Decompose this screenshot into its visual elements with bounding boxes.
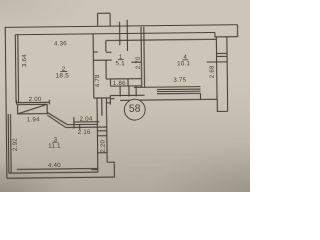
right wall window tick A <box>217 52 227 54</box>
window end jamb <box>199 93 201 99</box>
svg-text:3.64: 3.64 <box>21 54 28 67</box>
stair tick <box>106 102 110 104</box>
left wall inner line lower <box>7 114 10 173</box>
corridor jog <box>109 96 111 105</box>
svg-text:1.94: 1.94 <box>27 116 40 123</box>
stair wall line B <box>101 98 103 116</box>
reference circle 58 <box>124 99 145 120</box>
svg-text:4.78: 4.78 <box>94 74 101 87</box>
svg-text:2.92: 2.92 <box>12 138 19 151</box>
svg-text:3.75: 3.75 <box>173 77 186 84</box>
left wall inner lower B <box>9 114 12 173</box>
room 1 left wall lower <box>105 60 107 79</box>
svg-text:2.20: 2.20 <box>99 139 106 152</box>
corridor top line left <box>94 97 110 99</box>
dim 2.04 line <box>74 121 99 123</box>
room 1 bottom wall lower line <box>110 85 141 87</box>
rooms 1-4 block top wall <box>106 39 217 40</box>
stair wall tick 2 <box>97 135 106 137</box>
stair wall tick 3 <box>98 152 107 154</box>
closet dim line <box>17 101 50 103</box>
left wall inner line upper B <box>17 35 20 103</box>
svg-text:10.1: 10.1 <box>177 60 190 67</box>
dim 4.40 line <box>17 168 98 171</box>
right wall long tick <box>207 61 227 63</box>
right wall outer line <box>226 37 229 112</box>
closet diagonal <box>18 104 48 114</box>
corridor bottom line <box>120 99 217 100</box>
stub below room 1 C <box>135 86 137 96</box>
svg-text:2.70: 2.70 <box>135 56 142 69</box>
stair wall line A <box>96 98 99 172</box>
room 1 door jamb tick A <box>106 51 112 53</box>
corridor top line right <box>110 94 144 96</box>
top wall outer line <box>5 25 238 28</box>
room 2 underline <box>60 71 67 73</box>
door tick on room 2 wall <box>93 51 97 53</box>
svg-text:1.86: 1.86 <box>113 80 126 87</box>
stair landing line upper <box>67 123 97 125</box>
room 3 underline <box>52 141 58 143</box>
wall between rooms 1 and 4 line B <box>143 27 146 87</box>
wall between rooms 1 and 4 line A <box>140 27 143 87</box>
closet dim end tick left <box>16 100 18 104</box>
stair wall line C <box>105 98 108 162</box>
dim 2.04 tick <box>73 117 75 128</box>
stair diagonal B <box>47 115 66 128</box>
svg-text:18.5: 18.5 <box>55 72 69 79</box>
room 1 left wall upper <box>105 41 107 52</box>
svg-text:saewnta menwa trw satew merw: saewnta menwa trw satew merw <box>129 152 204 158</box>
svg-text:wram tnew asw: wram tnew asw <box>129 166 165 172</box>
svg-text:w snerta 2019 ew wertusp: w snerta 2019 ew wertusp <box>129 159 189 165</box>
stub below room 1 B <box>128 86 130 96</box>
window line A <box>157 88 200 90</box>
bottom wall outer line <box>7 177 107 178</box>
dim box left side <box>109 79 111 86</box>
svg-text:5.1: 5.1 <box>116 60 126 67</box>
svg-text:2.16: 2.16 <box>78 129 91 136</box>
top wall inner line <box>15 32 215 34</box>
chimney stub top <box>98 12 110 14</box>
dim box right side <box>127 79 129 86</box>
svg-text:2.00: 2.00 <box>29 96 42 103</box>
room 1 door jamb tick B <box>93 59 111 61</box>
room 1 bottom wall upper line <box>106 78 141 80</box>
room 4 underline <box>182 59 188 61</box>
svg-text:11.1: 11.1 <box>48 143 61 150</box>
svg-text:58: 58 <box>129 103 141 115</box>
bottom-right step block <box>107 162 114 177</box>
door lintel near bottom right <box>91 169 97 171</box>
tick through top wall B <box>126 20 128 51</box>
faint bleed-through text from reverse side <box>129 152 204 179</box>
dim 2.16 tick <box>79 125 81 130</box>
bottom-right step <box>217 99 227 111</box>
stair landing line lower <box>66 126 107 128</box>
stair diagonal A <box>47 112 67 125</box>
left wall inner line upper <box>14 35 17 103</box>
svg-text:4.40: 4.40 <box>48 162 61 169</box>
room 1 underline <box>118 59 124 61</box>
small step line <box>110 98 114 100</box>
room 2 right wall <box>92 34 95 98</box>
svg-text:2.04: 2.04 <box>80 116 93 123</box>
right wall inner line <box>215 37 218 99</box>
stair wall tick 1 <box>97 130 106 132</box>
dim tick left of divider wall <box>131 61 141 63</box>
chimney stub right <box>109 13 111 26</box>
chimney stub left <box>97 13 99 26</box>
room 4 bottom wall top line <box>134 86 200 89</box>
window sill line <box>157 92 200 94</box>
closet dim end tick right <box>48 100 50 104</box>
hatched closet bar <box>18 104 48 114</box>
bottom wall inner line <box>9 172 98 173</box>
right wall window tick B <box>217 55 227 57</box>
window line B <box>157 90 200 92</box>
svg-text:4.36: 4.36 <box>54 40 67 47</box>
stub below room 1 A <box>119 86 121 96</box>
svg-text:2.68: 2.68 <box>209 65 216 78</box>
svg-text:ne sat: ne sat <box>129 173 144 179</box>
top-right wall block <box>215 25 238 37</box>
left wall outer line <box>5 27 7 178</box>
tick through top wall A <box>119 22 121 45</box>
